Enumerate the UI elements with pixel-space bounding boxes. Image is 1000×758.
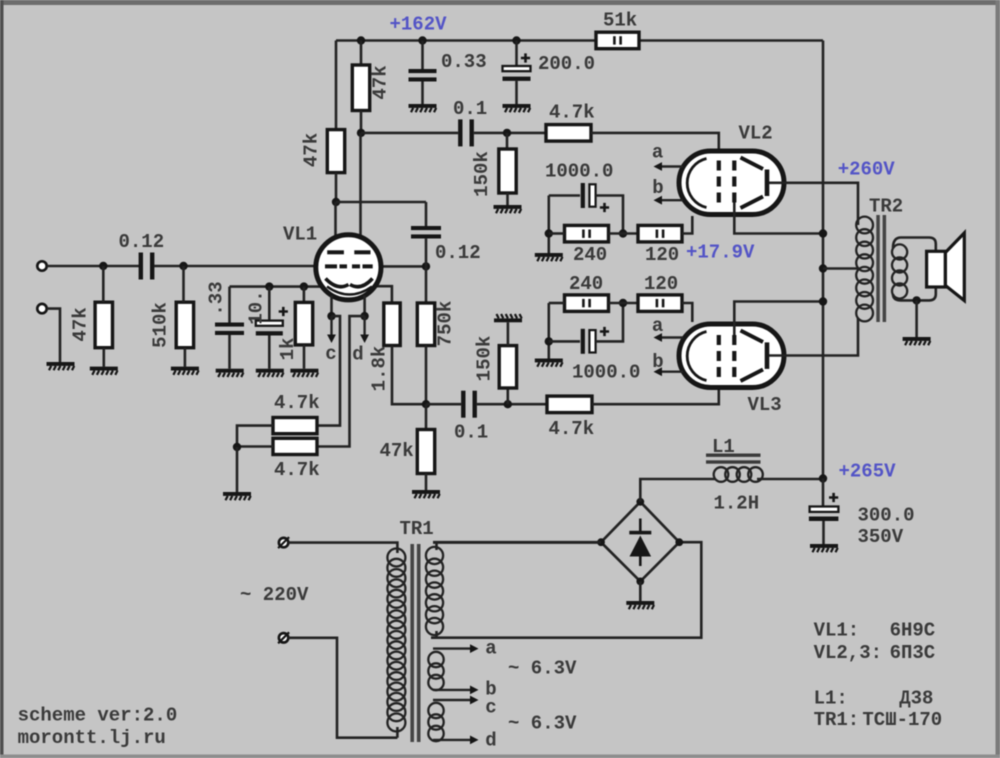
wire row1 plateB to cap 0.1a [361,132,458,135]
plus mark 1000.0 upper [600,203,609,212]
tube VL2 grid2 dashes [732,161,736,203]
svg-text:a: a [652,315,663,337]
resistor 240 upper [565,225,609,242]
svg-text:b: b [652,177,663,199]
svg-text:240: 240 [569,273,603,295]
svg-text:1000.0: 1000.0 [545,161,613,183]
capacitor .33 cathode [215,323,244,336]
tap arrow a [433,644,479,653]
wire bridge bottom to ground [639,581,642,601]
wire TR1 HV top stub [435,543,438,550]
junction rail / 0.33 [418,36,426,44]
junction rail / VL3 g2 [819,297,827,305]
ground of 10. [256,369,284,377]
bridge vertex right [675,538,683,546]
svg-text:200.0: 200.0 [538,53,595,75]
svg-text:+17.9V: +17.9V [686,242,755,264]
svg-text:4.7k: 4.7k [549,102,595,124]
wire VL3 cap left lead [549,340,580,343]
svg-text:0.33: 0.33 [441,51,487,73]
wire 240 to 120 lower [609,302,639,305]
resistor 150k lower [499,346,516,388]
transformer TR2 primary coil [856,217,873,322]
plus mark 10. [279,307,288,316]
ground of VL2 bias [535,253,563,261]
capacitor 1000.0 lower outlined plate [589,330,595,352]
wire VL2 cap left lead [549,194,580,197]
bridge vertex left [597,538,605,546]
wire +162V top rail [336,39,596,42]
resistor 120 upper [638,225,682,242]
wire mains lower to TR1 primary bottom [288,638,397,738]
wire grid row out of VL1 [377,265,426,268]
wire cathode B to 1.8k [374,286,392,303]
transformer TR1 primary coil [387,549,405,732]
wire TR1 HV bottom to bridge return [431,542,701,638]
svg-text:~ 6.3V: ~ 6.3V [508,713,577,735]
speaker horn [945,233,964,301]
wire grid row to 510k [182,266,185,302]
wire bridge left to TR1 HV [433,541,601,544]
svg-text:Д38: Д38 [899,688,933,710]
heater arrow d [360,316,369,343]
wire rail to cap 0.33 [421,41,424,70]
ground of speaker [903,337,931,345]
capacitor 0.1 lower [461,391,477,418]
capacitor 300.0 outlined plate [810,507,839,512]
resistor 47k anode B [352,65,369,111]
tube VL3 grid2 dashes [732,335,736,377]
wire rail to 47k-B top [360,41,363,66]
wire cap 0.33 to ground [421,82,424,105]
svg-text:1.2H: 1.2H [714,493,760,515]
wire 47k-A bottom to plate-A node [335,173,338,202]
svg-text:TR1: TR1 [400,518,434,540]
plus mark 1000.0 lower [600,327,609,336]
wire L1 to +265V node [757,478,823,481]
wire plate A node to cap 0.12b [336,201,426,204]
svg-text:VL2,3:: VL2,3: [814,642,882,664]
wire 150k upper to ground [506,193,509,205]
wire VL2 bias left to 240 [549,232,565,235]
wire cathode A riser .33 [228,287,231,323]
wire heater d to 4.7k pair [317,316,365,446]
ground of 1k [290,369,318,377]
tube VL3 inner cathode arc [687,332,706,381]
svg-text:a: a [652,142,663,164]
svg-text:VL1:: VL1: [814,620,860,642]
resistor 47k input [95,302,112,348]
frame right band [996,0,1000,758]
capacitor 10. electrolytic [256,321,283,336]
wire 4.7k row2 to VL3 grid [592,380,719,404]
tube VL1 plate B bar [354,250,370,254]
junction VL3 bias left [545,337,553,345]
capacitor 1000.0 upper solid plate [581,183,585,208]
wire +265V rail vertical [822,41,825,479]
wire fb node to 47k fb [425,404,428,429]
junction 47k-B / row1 [357,129,365,137]
junction rail / 47k-B [357,36,365,44]
wire input node to 47k-in [102,266,105,302]
tap arrow d [433,736,479,745]
junction +265V node [819,474,827,482]
wire 1.8k bottom to fb node [392,346,426,405]
bridge vertex top [636,498,644,506]
bridge rectifier diamond [601,502,679,582]
tube VL2 envelope [679,151,784,215]
capacitor 300.0 solid plate [809,517,839,522]
ground of bridge [626,601,654,609]
wire 4.7k row1 to VL2 grid [591,133,719,160]
svg-text:morontt.lj.ru: morontt.lj.ru [18,727,166,749]
tube VL3 anode diagonals [741,331,764,382]
junction rail / 200.0 [512,36,520,44]
wire row2 fb to cap 0.1b [426,403,461,406]
wire bus to 1k [303,287,306,303]
svg-text:b: b [652,351,663,373]
svg-text:c: c [325,343,336,365]
wire cap 200.0 to ground [515,81,518,104]
wire rail to cap 200.0 [515,41,518,67]
svg-text:+260V: +260V [838,159,896,181]
wire TR2 secondary top to speaker [893,238,936,253]
mains terminal upper [278,537,289,548]
wire 51k right to +265V rail top [639,39,823,42]
resistor 750k [417,303,434,346]
heater arrow b VL3 [654,367,684,376]
wire 1k to ground [303,345,306,369]
svg-text:120: 120 [644,273,678,295]
wire hum pair to ground [236,447,239,492]
wire 750k bottom to fb node [425,346,428,405]
junction feedback node [422,400,430,408]
frame top band [0,0,1000,5]
tube VL2 anode diagonals [741,158,764,209]
input terminal lower [37,304,46,313]
svg-text:ТСШ-170: ТСШ-170 [862,709,942,731]
resistor 47k anode A [327,130,344,173]
svg-text:d: d [485,730,496,752]
svg-text:6П3С: 6П3С [890,642,936,664]
resistor 51k [596,32,639,49]
tube VL1 cathode arc A [326,279,349,287]
svg-text:VL3: VL3 [748,394,782,416]
frame left band [0,0,4,758]
junction row1 / 150k upper [503,129,511,137]
svg-text:+162V: +162V [390,14,448,36]
svg-text:750k: 750k [435,301,457,347]
wire VL3 anode to TR2 [769,318,858,356]
inductor L1 coil [714,467,763,482]
wire 120 upper to VL2 cathode [682,216,692,234]
junction bus / 1k [300,282,308,290]
svg-text:L1:: L1: [814,688,848,710]
tube VL1 heater arc [327,287,372,295]
svg-text:51k: 51k [603,10,637,32]
junction heater c [327,312,335,320]
ground inverted of 150k lower [494,314,522,322]
wire heater c to 4.7k pair [317,316,340,426]
ground of VL3 bias [535,359,563,367]
wire hum pair left [237,426,273,447]
speaker body [927,251,946,287]
ground of 0.33 [409,104,437,112]
transformer TR1 core [410,544,420,742]
junction row2 / 150k lower [504,400,512,408]
wire 47k-B bottom to row1 junction [360,111,363,133]
junction 240/120 lower [619,299,627,307]
svg-text:.33: .33 [206,281,228,315]
wire +265V to cap 300.0 [822,479,825,507]
input terminal upper [37,261,46,270]
svg-text:150k: 150k [474,336,496,382]
ground of 47k feedback [412,490,440,498]
ground of 200.0 [503,104,531,112]
svg-text:47k: 47k [370,65,392,99]
svg-text:4.7k: 4.7k [274,459,320,481]
svg-text:510k: 510k [150,302,172,348]
wire cap 0.1b to 4.7k row2 [477,403,547,406]
svg-text:TR2: TR2 [869,196,903,218]
svg-text:~ 6.3V: ~ 6.3V [508,658,577,680]
svg-text:c: c [485,697,496,719]
tube VL1 grid dashes [325,264,373,268]
wire bridge top to L1 [640,479,715,502]
tube VL3 grid1 dashes [717,335,721,377]
tube VL1 plate A bar [327,250,344,254]
svg-text:1000.0: 1000.0 [572,362,640,384]
transformer TR2 core [876,215,886,322]
heater arrow a VL2 [654,162,684,171]
junction hum pair [233,443,241,451]
wire cap 0.12b to grid-B node [425,239,428,267]
wire VL3 grid2 to rail [734,302,823,336]
junction VL2 bias left [545,229,553,237]
resistor 4.7k hum upper [273,418,317,434]
ground of .33 [216,369,244,377]
heater arrow c [327,316,336,343]
svg-text:VL1: VL1 [283,224,317,246]
tube VL2 anode bar [765,170,770,197]
transformer TR1 heater coil ab [428,652,443,690]
wire 510k to ground [184,348,187,367]
wire cap .33 to ground [228,335,231,369]
svg-text:47k: 47k [70,307,92,341]
tube VL3 envelope [679,324,784,388]
wire plate A drop into VL1 [334,202,337,251]
junction 240/120 upper [619,229,627,237]
wire VL1 heater pin d [363,296,366,317]
wire 120 lower to VL3 cathode [682,303,692,322]
resistor 4.7k hum lower [273,438,317,454]
svg-text:VL2: VL2 [739,123,773,145]
wire rail to TR2 center tap [823,267,859,270]
capacitor 1000.0 lower solid plate [581,329,585,354]
wire 10uF to ground [268,336,271,369]
wire cap 0.1a to 4.7k [474,132,546,135]
svg-text:0.12: 0.12 [119,231,165,253]
tube VL1 envelope [316,235,381,300]
tube VL2 inner cathode arc [687,159,706,208]
svg-text:47k: 47k [301,133,323,167]
wire VL3 bias left riser [547,303,550,359]
transformer TR2 secondary coil [892,244,907,298]
wire cathode bus left [230,285,324,288]
wire rail corner down to 47k-A [335,41,338,130]
wire VL2 cath node left riser [547,196,550,254]
wire TR1 HV bottom stub [435,631,438,638]
wire row1 to 150k upper [506,133,509,149]
wire VL3 bias left to 240 [549,302,565,305]
capacitor 1000.0 upper outlined plate [589,184,595,206]
svg-text:1k: 1k [277,338,299,361]
junction rail / TR2 center tap [819,264,827,272]
capacitor 0.12 coupling [411,226,441,239]
junction input / 47k-in [99,262,107,270]
tube VL1 cathode arc B [350,279,373,287]
plus mark 300.0 [829,493,838,502]
transformer TR1 heater coil cd [428,703,443,741]
capacitor 0.33 [409,69,437,82]
heater arrow a VL3 [654,333,684,342]
junction heater d [360,312,368,320]
svg-text:0.1: 0.1 [453,98,487,120]
wire mains upper to TR1 primary [288,543,397,553]
tap arrow c [433,696,479,705]
svg-text:6Н9С: 6Н9С [890,620,936,642]
svg-text:350V: 350V [858,526,904,548]
plus mark 200.0 [521,53,530,62]
wire TR1 HV top to bridge [433,541,601,544]
wire cap 0.12a to VL1 grid [154,265,320,268]
svg-text:~ 220V: ~ 220V [240,584,309,606]
svg-text:240: 240 [573,244,607,266]
resistor 1k [295,302,312,345]
wire 150k lower to inverted ground [507,322,510,345]
ground of 510k [171,367,199,375]
ground of 47k input [90,367,118,375]
wire VL2 anode to TR2 [769,183,858,225]
svg-text:150k: 150k [471,151,493,197]
junction plate A node [332,198,340,206]
svg-text:120: 120 [645,244,679,266]
svg-text:scheme ver:2.0: scheme ver:2.0 [18,705,178,727]
resistor 120 lower [638,295,682,312]
junction grid-B node [422,262,430,270]
mains terminal lower [278,632,289,643]
capacitor 0.1 upper [458,119,474,146]
svg-text:300.0: 300.0 [858,505,915,527]
resistor 4.7k row1 [546,125,591,142]
bridge diode [629,519,651,567]
junction rail / VL2 g2 [819,229,827,237]
resistor 1.8k [384,303,400,346]
ground of 300.0 [810,544,838,552]
wire input to cap 0.12a [47,265,139,268]
ground of input lower [47,362,75,370]
capacitor 0.12 input [139,253,155,280]
resistor 510k [176,302,193,348]
wire cap 300.0 to ground [822,521,825,544]
svg-text:47k: 47k [380,440,414,462]
tube VL2 grid1 dashes [717,161,721,203]
frame bottom band [0,755,1000,758]
svg-text:1.8k: 1.8k [369,346,391,392]
svg-text:+265V: +265V [839,461,897,483]
heater arrow b VL2 [654,196,684,205]
wire VL2 grid2 to rail [734,203,823,234]
resistor 4.7k row2 [547,396,592,413]
resistor 47k feedback [417,430,434,474]
wire 240 to 120 upper [609,232,639,235]
ground of 150k upper [494,205,522,213]
wire 47k-in to ground [103,348,106,367]
wire grid-B node to 750k [425,266,428,303]
svg-text:0.1: 0.1 [454,422,488,444]
junction grid row / 510k [179,262,187,270]
svg-text:4.7k: 4.7k [549,418,595,440]
capacitor 200.0 electrolytic [503,66,531,81]
wire TR2 secondary bottom to speaker [893,286,936,300]
wire speaker tap to ground [915,300,918,337]
svg-text:10.: 10. [246,290,268,324]
svg-text:0.12: 0.12 [435,242,481,264]
tap arrow b [433,686,479,695]
junction bus / 10uF [265,282,273,290]
resistor 150k upper [499,149,516,193]
wire 150k lower to row2 [506,388,509,404]
inductor L1 core [706,454,761,464]
wire plate B drop into VL1 [359,133,362,251]
junction speaker ground tap [912,296,920,304]
wire 47k fb to ground [425,474,428,491]
svg-text:4.7k: 4.7k [274,392,320,414]
ground of hum pair [223,492,251,500]
bridge vertex bottom [636,578,644,586]
tube VL3 anode bar [765,342,770,369]
svg-text:TR1:: TR1: [814,709,860,731]
svg-text:d: d [352,344,363,366]
transformer TR1 HV secondary coil [426,547,443,635]
svg-text:a: a [485,638,496,660]
wire VL3 cap right lead [596,303,623,341]
wire input lower to ground [47,309,60,362]
wire cap 0.12b top riser [425,202,428,226]
resistor 240 lower [565,295,609,312]
wire VL2 cap right lead [596,196,623,234]
wire VL1 heater pin c [330,296,333,317]
wire bus to 10uF [268,287,271,321]
